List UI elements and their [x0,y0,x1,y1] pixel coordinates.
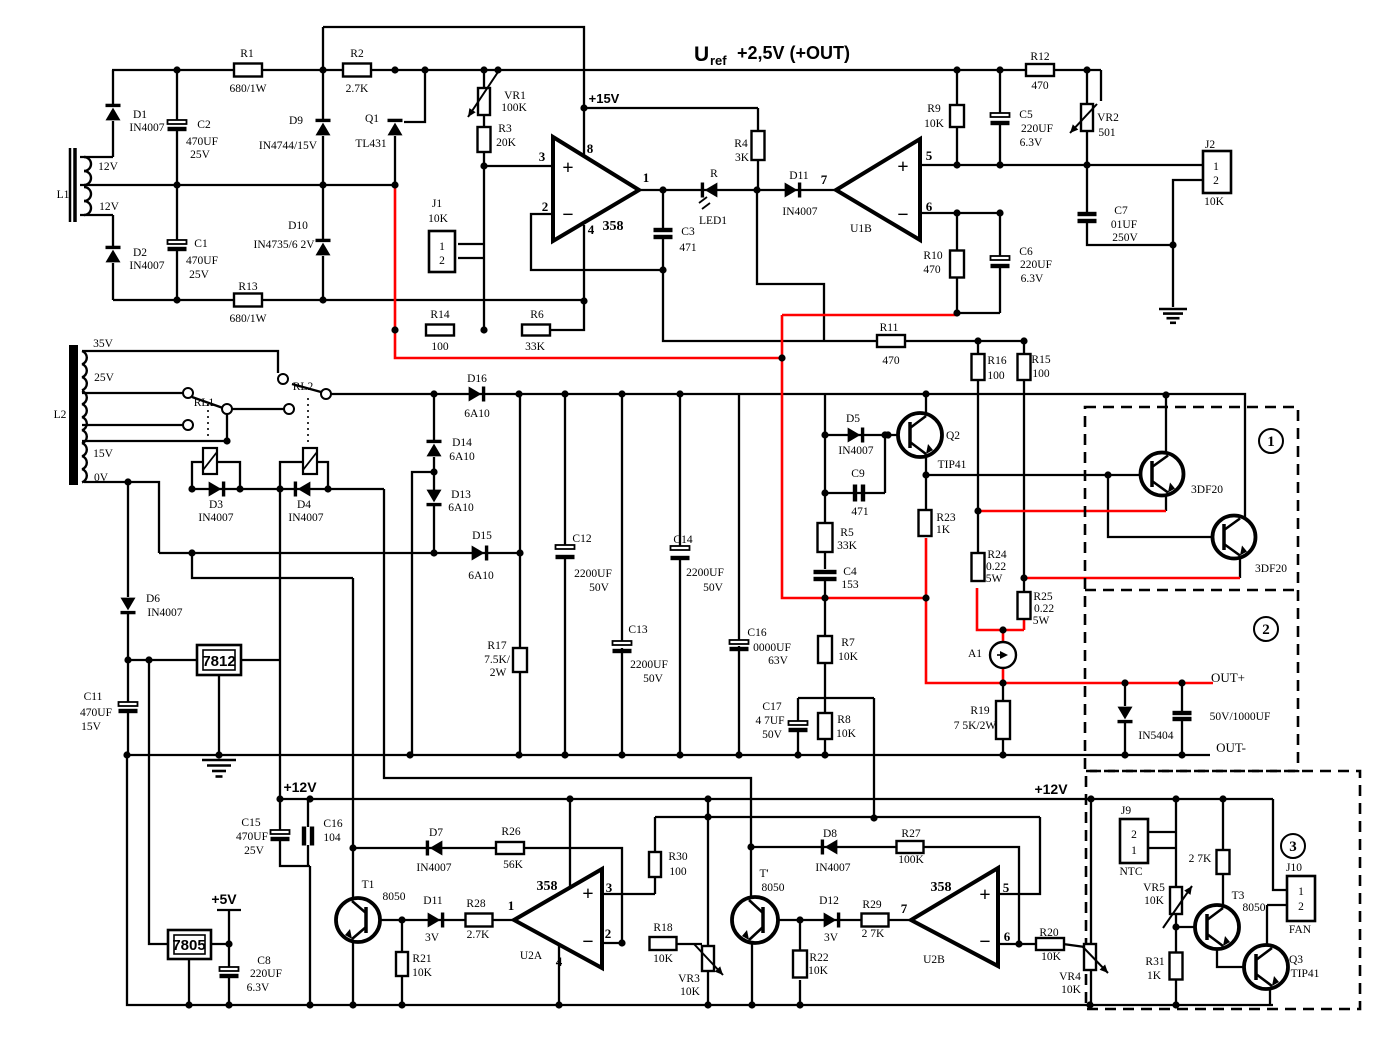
svg-text:R1: R1 [240,48,254,60]
wire R9 bottom lead [956,127,958,165]
svg-text:R24: R24 [987,549,1006,561]
wire R30 bottom lead [654,877,656,894]
wire U2A pin4 lead [558,944,560,1005]
svg-text:C13: C13 [628,624,647,636]
svg-text:4: 4 [588,222,595,237]
resistor 2.7K fan [1217,850,1230,874]
diode D12 [824,913,837,928]
wire C11 top lead [127,660,129,703]
junction at 708,817 [704,813,711,820]
svg-text:5W: 5W [1033,615,1050,627]
wire C5 top lead [999,70,1001,114]
junction at 708,1005 [704,1001,711,1008]
svg-text:+: + [582,883,593,905]
svg-text:153: 153 [841,579,859,591]
resistor R16 [972,354,985,380]
junction at 798,755 [794,751,801,758]
junction at 434,472 [430,468,437,475]
wire VR4 top feed from +12V [1090,799,1092,944]
svg-text:R16: R16 [987,355,1006,367]
wire C16 bottom lead [738,646,740,755]
transistor Q2 TIP41 [898,413,942,457]
contact RL1 25V [183,388,193,398]
capacitor C14 [671,546,690,550]
ground near J2 [1159,308,1187,311]
svg-text:IN4007: IN4007 [416,862,451,874]
wire R22 bottom lead [799,980,801,1005]
svg-text:C2: C2 [197,119,211,131]
svg-text:2.7K: 2.7K [467,929,490,941]
svg-text:2200UF: 2200UF [630,659,668,671]
wire C14 top lead [679,394,681,547]
svg-text:D1: D1 [133,109,147,121]
svg-text:R13: R13 [238,281,257,293]
svg-text:220UF: 220UF [1020,259,1052,271]
junction at 402,1005 [398,1001,405,1008]
svg-text:IN4007: IN4007 [198,512,233,524]
capacitor C13 [613,641,632,645]
wire R21 bottom lead [401,975,403,1005]
wire RL1 pole lead [226,413,228,441]
svg-text:R2: R2 [350,48,364,60]
wire relay diode row [192,488,384,490]
junction at 484,70 [480,66,487,73]
contact RL1 pole [222,404,232,414]
junction at 757,190 [753,186,760,193]
svg-text:2: 2 [605,926,612,941]
wire Q2 collector [925,394,927,413]
wire R15 bottom to R25 [1023,380,1025,592]
relay coil RL2 [303,448,317,474]
wire R8 top lead [824,698,826,713]
capacitor C16b [302,827,306,846]
junction at 565,394 [561,390,568,397]
svg-text:50V: 50V [703,582,724,594]
junction at 1090,1005 [1086,1001,1093,1008]
junction red at 1125,683 [1121,679,1128,686]
svg-text:2.7K: 2.7K [346,83,369,95]
potentiometer VR1 [478,88,490,115]
svg-text:4: 4 [556,954,563,969]
op-amp U1B [836,139,920,240]
svg-text:R6: R6 [530,309,544,321]
junction at 434,394 [430,390,437,397]
svg-text:0.22: 0.22 [1034,603,1054,615]
svg-text:100K: 100K [501,102,527,114]
svg-text:4 7UF: 4 7UF [755,715,784,727]
junction at 739,755 [735,751,742,758]
resistor R10 [950,251,964,278]
op-amp U2B [911,868,998,966]
svg-text:D4: D4 [297,499,311,511]
wire pin5 pullup line [655,816,1040,818]
resistor R27 [897,841,924,853]
junction at 1091,799 [1087,795,1094,802]
svg-text:D12: D12 [819,895,839,907]
wire VR3 top feed [707,817,709,946]
wire R10 top lead [956,213,958,251]
junction at 410,755 [406,751,413,758]
junction at 519,394 [515,390,522,397]
svg-text:1: 1 [1267,434,1275,450]
wire T3 emitter to Q3 base [1217,948,1245,967]
junction at 1000,165 [996,161,1003,168]
wire D2 cathode lead [112,215,114,249]
svg-text:25V: 25V [190,149,211,161]
resistor R6 [522,325,550,336]
wire L1 centre tap [80,184,395,186]
wire +5V bar [217,909,241,911]
wire C3 top lead [662,190,664,229]
junction at 192,489 [188,485,195,492]
wire D5 to Q2 base [825,434,898,436]
wire +12V rail [280,798,1273,800]
relay coil RL1 [203,448,217,474]
svg-text:Q3: Q3 [1289,954,1303,966]
svg-text:6.3V: 6.3V [1021,273,1044,285]
wire U2A pin3 stub [602,893,655,895]
wire U1B pin 6 [920,212,1000,214]
svg-text:8050: 8050 [762,882,785,894]
svg-text:2 7K: 2 7K [1189,853,1212,865]
diode D3 [209,482,222,497]
junction at 425,70 [421,66,428,73]
wire L2 0V tap to 553 rail [84,482,159,553]
wire red A1 top lead [1002,630,1005,643]
wire J1 pin1 stub [458,243,484,245]
junction at 825,755 [821,751,828,758]
svg-text:3K: 3K [735,152,750,164]
regulator 7805 [168,930,211,959]
wire VR1 top lead [483,70,485,88]
op-amp U1A [553,137,639,241]
wire Q3 emitter lead [1269,988,1271,1005]
diode D7 [430,841,443,856]
junction at 680,755 [676,751,683,758]
wire red 3DF20-2 emitter line [1024,577,1240,580]
wire 7805 output lead [211,943,229,945]
wire Q1 cathode tab to rail [404,70,425,122]
svg-text:RL2: RL2 [293,381,314,393]
junction at 177,70 [173,66,180,73]
svg-text:R31: R31 [1145,956,1164,968]
junction at 622,755 [618,751,625,758]
transistor T-prime 8050 [732,897,778,943]
wire 553 rail to 578 jog [192,553,353,578]
wire C12 bottom lead [564,555,566,755]
wire J2 pin2 to ground [1173,180,1203,307]
svg-text:R12: R12 [1030,51,1049,63]
wire U1A pin 3 input [484,165,553,167]
svg-text:IN4007: IN4007 [815,862,850,874]
zone mark 1 [1259,429,1283,453]
wire T1 base link [368,919,402,921]
svg-text:ref: ref [710,53,727,68]
svg-text:R23: R23 [936,512,955,524]
junction at 751,847 [747,843,754,850]
connector J1 [429,231,455,272]
resistor R12 [1026,64,1054,76]
svg-text:6A10: 6A10 [464,408,490,420]
wire VR5 to R31 [1175,913,1177,953]
junction red at 825,598 [821,594,828,601]
junction at 888,435 [884,431,891,438]
wire +12V to J10 pin1 [1273,799,1287,890]
junction at 708,799 [704,795,711,802]
junction at 128,660 [124,656,131,663]
wire R16 top lead [977,341,979,354]
resistor R31 [1170,953,1183,980]
junction at 1087,70 [1083,66,1090,73]
wire RL1 coil dotted link [207,404,209,446]
wire C13 top lead [621,394,623,642]
wire 7812 ground lead [218,675,220,757]
svg-text:5: 5 [1003,880,1010,895]
capacitor C15 [271,830,290,834]
junction at 434,553 [430,549,437,556]
wire 7812 input rail [128,659,280,661]
wire red 3DF20-1 emitter line [978,510,1166,513]
svg-text:+: + [897,156,908,178]
junction at 127,755 [123,751,130,758]
svg-text:J1: J1 [432,198,442,210]
diode D8 [825,840,838,855]
wire VR1-R3 link [483,115,485,127]
junction at 1176,1005 [1172,1001,1179,1008]
wire R31 bottom lead [1175,979,1177,1005]
wire D9 top lead [322,70,324,121]
junction at 1223,799 [1219,795,1226,802]
junction red at 1003,683 [999,679,1006,686]
svg-text:1K: 1K [1147,970,1162,982]
junction at 177,185 [173,181,180,188]
wire R4 bottom lead [757,160,759,190]
resistor R11 [877,335,905,347]
junction at 957,70 [953,66,960,73]
wire C6 bottom lead [999,265,1001,313]
wire D7 R26 feedback [353,848,622,943]
svg-text:33K: 33K [525,341,546,353]
svg-text:L1: L1 [57,189,70,201]
junction at 353,848 [349,844,356,851]
wire R30 top lead [654,817,656,852]
wire R2/D9 node to top loop [322,27,324,70]
svg-text:1: 1 [1213,161,1219,173]
wire C11 bottom lead [127,710,129,755]
wire R16 bottom to R24 [977,380,979,553]
svg-text:01UF: 01UF [1111,219,1137,231]
wire U2B pin6 stub [998,943,1037,945]
svg-text:7: 7 [901,901,908,916]
contact RL1 low [183,420,193,430]
resistor R17 [513,648,527,672]
svg-text:J2: J2 [1205,139,1215,151]
svg-text:D3: D3 [209,499,223,511]
wire J9 to VR5 chain [1175,799,1177,887]
svg-text:10K: 10K [1204,196,1225,208]
LED1 R [705,183,718,198]
transformer L2 windings [82,351,87,364]
resistor R19 [996,701,1010,739]
wire R7 bottom lead [824,663,826,698]
junction at 957,213 [953,209,960,216]
junction at 1173,245 [1169,241,1176,248]
resistor R21 [396,952,408,976]
svg-text:1: 1 [1298,886,1304,898]
svg-text:10K: 10K [412,967,433,979]
connector J9 [1120,819,1148,863]
svg-text:2W: 2W [490,667,507,679]
svg-text:1: 1 [1131,845,1137,857]
junction at 323,70 [319,66,326,73]
op-amp U2A [514,869,602,968]
wire U1A pin 4 lead [583,225,585,301]
wire T1 emitter to bottom rail [352,942,354,1005]
capacitor output 1000UF [1173,711,1192,715]
wire C9 link [825,492,885,494]
junction at 663,270 [659,266,666,273]
svg-text:Q1: Q1 [365,113,379,125]
svg-text:2: 2 [439,255,445,267]
junction at 1087,165 [1083,161,1090,168]
resistor R23 [919,510,932,536]
svg-text:3DF20: 3DF20 [1191,484,1223,496]
wire D9 bottom lead [322,136,324,185]
svg-text:R27: R27 [901,828,920,840]
resistor R30 [649,852,661,877]
capacitor C2 [168,120,187,124]
junction at 926,394 [922,390,929,397]
svg-text:2: 2 [542,199,549,214]
junction at 1019,944 [1015,940,1022,947]
svg-text:D14: D14 [452,437,472,449]
wire U2A pin2 stub [602,942,622,944]
wire D12 R29 to U2B output [800,919,911,921]
junction at 874,818 [870,814,877,821]
junction at 1125,755 [1121,751,1128,758]
capacitor C7 [1078,212,1097,216]
wire C17/R7/R8 node [798,697,874,699]
svg-text:OUT-: OUT- [1216,740,1246,755]
LED1 hatch marks [699,197,707,203]
wire R7 top lead [824,598,826,636]
wire C3/pin2 node to R11 [663,270,1024,341]
svg-text:C5: C5 [1019,109,1033,121]
wire relay coil1 right lead [217,462,240,489]
wire C4 bottom lead [824,577,826,598]
svg-text:50V/1000UF: 50V/1000UF [1210,711,1271,723]
wire D11 node down to R11 wire [757,190,824,341]
junction at 1176,799 [1172,795,1179,802]
wire R17 top lead [519,553,521,649]
junction at 978,341 [974,337,981,344]
wire R5 top lead [824,493,826,523]
svg-text:10K: 10K [808,965,829,977]
svg-text:8050: 8050 [383,891,406,903]
wire R9 top lead [956,70,958,105]
junction red at 926,598 [922,594,929,601]
svg-text:100: 100 [1032,368,1050,380]
junction at 957,165 [953,161,960,168]
wire D5 node to 35V rail [824,394,826,435]
svg-text:R25: R25 [1033,591,1052,603]
svg-text:7805: 7805 [172,937,205,954]
svg-text:3: 3 [606,880,613,895]
resistor R15 [1018,354,1031,380]
svg-text:IN4744/15V: IN4744/15V [259,140,318,152]
wire R20 to VR4 [1063,944,1085,947]
svg-text:6A10: 6A10 [449,451,475,463]
shunt regulator Q1 TL431 [388,123,403,136]
wire +12V drop to pin5 line [707,799,709,817]
resistor R22 [793,951,807,978]
svg-text:D15: D15 [472,530,492,542]
contact RL2 35V [278,374,288,384]
wire RL2 coil dotted link [307,398,309,446]
svg-text:U1B: U1B [850,223,872,235]
wire left edge down to bottom rail [127,755,1273,1005]
svg-text:+12V: +12V [283,779,317,795]
wire D11b R28 to U2A output [402,919,514,921]
junction at 149,660 [145,656,152,663]
wire red to U1B feedback node [782,314,957,317]
resistor R5 [818,523,833,552]
zone mark 2 [1254,617,1278,641]
svg-text:Q2: Q2 [946,430,960,442]
junction at 227,441 [223,437,230,444]
connector J2 [1203,151,1231,193]
transistor T3 8050 [1195,905,1239,949]
svg-text:R29: R29 [862,899,881,911]
svg-text:D9: D9 [289,115,303,127]
svg-text:100: 100 [669,866,687,878]
wire relay D4 node down to 7812 input [279,489,281,660]
svg-text:100: 100 [987,370,1005,382]
capacitor C8 [220,967,239,971]
wire RL2 arm [292,384,321,392]
svg-text:J10: J10 [1286,862,1302,874]
junction at 800,920 [796,916,803,923]
wire C17 top lead [797,698,799,722]
svg-text:T': T' [759,868,768,880]
junction at 584,301 [580,297,587,304]
wire L2 35V tap to RL2 contact [82,351,278,373]
svg-text:R5: R5 [840,527,854,539]
wire RL1 arm [192,397,223,408]
wire U1A output to U1B [639,189,836,191]
svg-text:D13: D13 [451,489,471,501]
svg-text:33K: 33K [837,540,858,552]
junction at 825,493 [821,489,828,496]
diode D6 [121,598,136,611]
transformer L1 windings [84,157,91,171]
contact RL2 pole [321,389,331,399]
wire C9/R5 node [824,435,826,493]
svg-text:104: 104 [323,832,341,844]
svg-text:+12V: +12V [1034,781,1068,797]
wire J10 pin2 stub [1267,904,1287,906]
dashed box fan zone 3 [1086,771,1360,1009]
wire J9 pin1 stub [1148,847,1176,849]
wire R5 to C4 [824,552,826,569]
dashed box output stage 1-2 [1085,407,1298,771]
resistor R29 [862,914,889,927]
wire D2 anode lead [112,263,114,300]
svg-text:470: 470 [882,355,900,367]
svg-text:10K: 10K [1144,895,1165,907]
contact RL2 low [284,404,294,414]
junction at 395,330 [391,326,398,333]
